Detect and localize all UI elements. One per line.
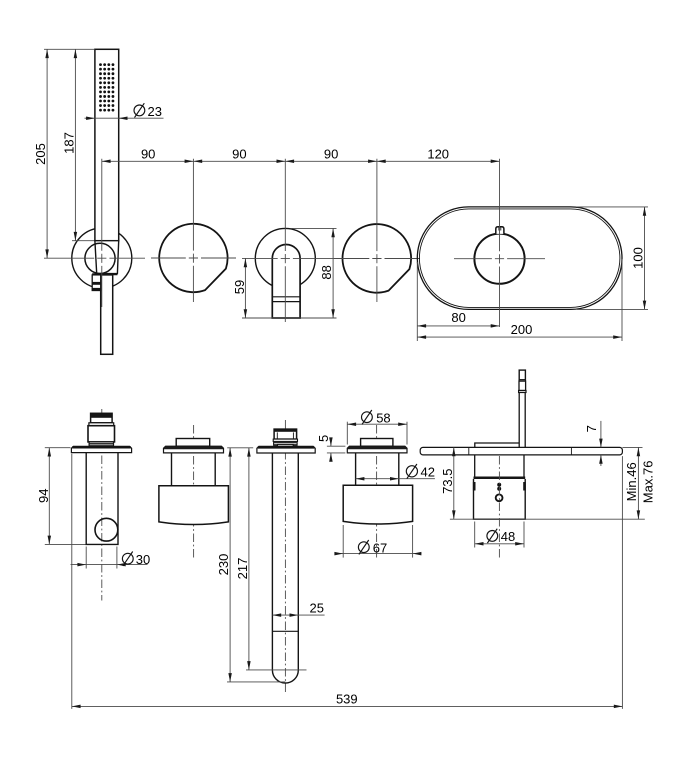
extension 5 top xyxy=(327,445,346,447)
extension dia67 right xyxy=(412,525,414,558)
extension/centerline knob2 vertical xyxy=(376,159,378,302)
svg-text:Min.46: Min.46 xyxy=(624,462,639,501)
dimension 217 line xyxy=(248,448,250,670)
svg-text:94: 94 xyxy=(36,489,51,503)
svg-text:42: 42 xyxy=(421,464,435,479)
body side groove mark left xyxy=(473,482,476,491)
mixer body xyxy=(474,479,526,519)
spout aerator line 1 xyxy=(272,296,300,298)
body icon dot 1 xyxy=(497,483,501,487)
extension dia67 left xyxy=(342,525,344,558)
collar dark band 1 xyxy=(92,282,101,285)
valve A wall plate xyxy=(164,446,224,453)
svg-text:90: 90 xyxy=(141,147,155,162)
valve B outer cylinder xyxy=(343,485,412,524)
svg-text:90: 90 xyxy=(324,147,338,162)
plate joint line right xyxy=(570,447,572,455)
valve side B: dashed centerline xyxy=(376,425,378,560)
dimension 5 arrows xyxy=(330,438,332,447)
extension minmax top xyxy=(622,446,642,448)
extension 217 bottom / cap centerline xyxy=(246,669,307,671)
holder connector ring band xyxy=(89,423,114,426)
extension 230/217 top xyxy=(227,447,253,449)
shower hose tube xyxy=(101,275,113,354)
svg-text:539: 539 xyxy=(336,692,358,707)
extension at oval top right xyxy=(577,206,648,208)
dimension dia42 line xyxy=(356,478,435,480)
label diameter-58 symbol xyxy=(362,410,373,424)
holder ball joint xyxy=(95,518,118,541)
holder side: dashed centerline xyxy=(101,409,103,601)
dimension 230 line xyxy=(229,448,231,682)
label diameter-23 symbol xyxy=(134,103,145,117)
spout aerator line 2 xyxy=(272,301,300,303)
valve B body sides xyxy=(356,453,399,485)
holder cap dark band xyxy=(91,414,112,418)
spout nut dark band xyxy=(274,429,296,432)
extension dia30 left xyxy=(85,547,87,569)
valve A body sides xyxy=(172,453,216,486)
svg-text:59: 59 xyxy=(232,280,247,294)
mixer knob horizontal centerline xyxy=(454,258,545,260)
mixer dashed centerline xyxy=(498,456,500,559)
extension dia30 right xyxy=(116,547,118,569)
mixer knob top tab xyxy=(496,227,504,234)
valve A outer cylinder xyxy=(159,486,229,525)
spout connector band xyxy=(273,439,297,441)
lever rod segment 2 xyxy=(519,381,526,390)
extension 5 bottom xyxy=(327,452,346,454)
dimension 73.5 line xyxy=(453,447,455,519)
svg-text:48: 48 xyxy=(501,529,515,544)
svg-text:67: 67 xyxy=(373,540,387,555)
spout connector threads xyxy=(274,442,298,446)
svg-text:30: 30 xyxy=(136,552,150,567)
label diameter-67 symbol xyxy=(358,540,369,554)
spout tube front xyxy=(272,244,300,318)
extension dia58 left xyxy=(346,422,348,445)
extension 94 bottom xyxy=(45,543,86,545)
extension/centerline spout vertical xyxy=(284,159,286,322)
extension 94 top xyxy=(45,447,71,449)
oval wall plate outer xyxy=(417,207,622,310)
holder side: hose connector cap xyxy=(91,413,113,423)
lever rod tick band xyxy=(519,380,525,381)
top extension line at wand top xyxy=(44,48,94,50)
dimension 187 line xyxy=(74,49,76,240)
dimension 7 arrows xyxy=(600,421,602,448)
tab inner ticks xyxy=(498,227,500,231)
bracket vertical centerline xyxy=(101,159,103,307)
spout escutcheon circle xyxy=(255,228,315,288)
holder connector nut xyxy=(88,426,115,442)
svg-text:217: 217 xyxy=(235,558,250,580)
extension at oval bottom right xyxy=(577,308,648,310)
mixer upper housing sides xyxy=(475,455,524,477)
holder plate heavy top edge xyxy=(72,446,131,448)
dimension 25 line xyxy=(272,614,324,616)
hand shower wand body xyxy=(95,49,119,240)
svg-text:205: 205 xyxy=(33,143,48,165)
dimension diameter 23 line xyxy=(85,117,164,119)
svg-text:Max.76: Max.76 xyxy=(640,461,655,504)
extension at spout circle top xyxy=(291,227,337,229)
extension oval left vertical xyxy=(416,262,418,341)
spout horizontal centerline / 59 extension xyxy=(242,257,338,259)
holder connector lower rings xyxy=(89,442,113,446)
valve side A: dashed centerline xyxy=(193,425,195,560)
chained dimension line 90/90/90/120 xyxy=(102,160,500,162)
svg-text:230: 230 xyxy=(216,554,231,576)
knob 2 horizontal centerline xyxy=(334,258,420,260)
valve B plate dark top band xyxy=(348,446,407,449)
knob 1 (valve handle front) xyxy=(159,224,227,292)
collar dark band 2 xyxy=(92,288,101,291)
dimension 200 line xyxy=(417,336,622,338)
body icon dot 2 xyxy=(497,487,501,491)
dimension dia48 line xyxy=(475,543,524,545)
hose nipple collar xyxy=(92,275,101,291)
svg-text:25: 25 xyxy=(310,600,324,615)
187 extension line xyxy=(72,240,94,242)
holder body tube xyxy=(86,453,118,545)
extension dia48 left xyxy=(474,522,476,548)
dimension 100 line xyxy=(644,207,646,310)
knob 1 horizontal centerline xyxy=(151,257,236,259)
svg-text:58: 58 xyxy=(376,410,390,425)
extension oval right vertical xyxy=(621,259,623,341)
dimension dia67 line xyxy=(335,553,422,555)
spout tube joint line xyxy=(272,630,298,632)
dimension dia58 line xyxy=(347,423,407,425)
svg-text:80: 80 xyxy=(451,310,465,325)
extension/centerline knob1 vertical xyxy=(192,159,194,302)
body icon ring xyxy=(496,494,503,501)
spout threads dark band xyxy=(274,442,298,443)
dimension 94 line xyxy=(48,448,50,545)
spout wall plate xyxy=(257,446,315,453)
spout plate heavy top edge xyxy=(258,446,315,448)
spout long tube side xyxy=(272,453,298,683)
svg-text:5: 5 xyxy=(316,435,331,442)
valve A stem xyxy=(176,439,210,447)
lever rod shaft xyxy=(519,393,525,448)
handle bottom heavy edge xyxy=(92,273,117,275)
bracket inner ring xyxy=(85,243,115,273)
lever rod wide tick xyxy=(519,391,526,393)
extension dia58 right xyxy=(406,422,408,445)
label diameter-42 symbol xyxy=(406,464,417,479)
mixer separator thick band xyxy=(474,477,526,480)
spout connector nut xyxy=(274,429,297,439)
mixer plate side bar xyxy=(420,447,622,455)
svg-text:187: 187 xyxy=(61,132,76,154)
bracket horizontal centerline and 205 extension xyxy=(44,257,145,259)
label diameter-30 symbol xyxy=(122,552,133,566)
spout nut inner lines xyxy=(276,432,278,439)
mixer side: lever rod tip xyxy=(519,370,525,380)
svg-text:200: 200 xyxy=(511,322,533,337)
wand handle taper xyxy=(95,241,119,274)
plate joint line left xyxy=(468,447,470,455)
body side groove mark right xyxy=(523,482,526,491)
holder wall flange plate xyxy=(71,446,131,452)
svg-text:100: 100 xyxy=(631,247,646,269)
extension/centerline mixer knob vertical xyxy=(499,159,501,327)
dimension dia30 line xyxy=(71,564,148,566)
bracket outer escutcheon circle (hand shower holder) xyxy=(72,228,132,288)
extension 539 right xyxy=(621,456,623,709)
svg-text:120: 120 xyxy=(427,147,449,162)
extension dia48 right xyxy=(523,522,525,548)
svg-text:23: 23 xyxy=(148,104,162,119)
svg-text:88: 88 xyxy=(319,265,334,279)
spray face dot grid xyxy=(99,63,114,111)
long extension at body bottom xyxy=(450,518,645,520)
extension 539 left xyxy=(71,454,73,709)
mixer knob circle xyxy=(474,234,524,284)
dimension 59 line xyxy=(244,258,246,318)
svg-text:90: 90 xyxy=(232,147,246,162)
label diameter-48 symbol xyxy=(487,529,498,543)
extension at spout bottom xyxy=(242,317,337,319)
knob 2 (valve handle front) xyxy=(343,224,412,293)
svg-text:7: 7 xyxy=(584,425,599,432)
spout connector foot xyxy=(278,444,294,446)
valve B wall plate xyxy=(347,446,407,453)
extension 230 bottom xyxy=(227,681,285,683)
svg-text:73.5: 73.5 xyxy=(440,469,455,494)
dimension 88 line xyxy=(332,228,334,318)
dimension 205 line xyxy=(46,49,48,258)
valve A plate dark top band xyxy=(164,446,223,449)
dimension 80 line xyxy=(417,325,499,327)
valve B stem xyxy=(361,439,393,447)
dimension min46 max76 line xyxy=(637,447,639,519)
oval wall plate inner xyxy=(419,209,620,308)
lever handle base xyxy=(475,443,519,447)
spout side: dashed centerline xyxy=(284,420,286,694)
dimension 539 line xyxy=(72,705,623,707)
